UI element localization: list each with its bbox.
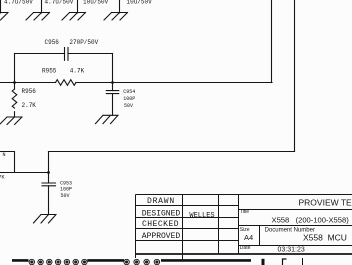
wire right branch vertical <box>112 54 114 91</box>
svg-text:DRAWN: DRAWN <box>147 197 175 206</box>
svg-text:03:31:23: 03:31:23 <box>278 247 305 254</box>
svg-text:270P/50V: 270P/50V <box>69 39 98 46</box>
svg-text:C954: C954 <box>123 89 135 95</box>
ground G4 <box>104 13 128 21</box>
connector pin circles group 1 <box>29 259 87 264</box>
svg-text:APPROVED: APPROVED <box>142 232 181 241</box>
bus bar segment 3 <box>161 259 251 262</box>
svg-text:R955: R955 <box>42 68 57 75</box>
svg-text:Date: Date <box>240 245 251 251</box>
title block row line approved <box>136 240 239 242</box>
title block row line drawn <box>136 205 239 207</box>
wire net A right riser <box>271 0 273 83</box>
ground G1 <box>0 13 8 21</box>
title block bottom border <box>136 253 352 255</box>
wire cap2 lead <box>41 0 43 13</box>
wire cap4 lead <box>119 0 121 13</box>
title block row line date <box>239 245 352 247</box>
svg-text:50V: 50V <box>61 193 70 199</box>
node junction A-right <box>111 81 114 84</box>
tick below table left <box>135 254 137 258</box>
title block divider v3 <box>238 195 240 255</box>
title block size divider <box>259 226 261 246</box>
resistor R955 <box>56 80 76 86</box>
wire B riser to net C <box>48 152 50 184</box>
svg-text:4.7u/50V: 4.7u/50V <box>45 0 74 6</box>
svg-text:PROVIEW TECHNOLOGY: PROVIEW TECHNOLOGY <box>299 197 352 207</box>
svg-text:N: N <box>3 152 6 158</box>
wire C954 bottom lead <box>112 94 114 116</box>
svg-text:10u/50V: 10u/50V <box>83 0 109 6</box>
ground G3 <box>62 13 86 21</box>
bus bar segment 1 <box>12 259 29 262</box>
svg-text:100P: 100P <box>123 96 135 102</box>
wire net A main horizontal <box>0 82 272 84</box>
title block row line designed <box>136 217 239 219</box>
svg-text:X558 (200-100-X558): X558 (200-100-X558) <box>272 216 350 225</box>
svg-text:10u/50V: 10u/50V <box>127 0 153 6</box>
svg-text:A4: A4 <box>244 233 253 242</box>
pin glyphs group 1 <box>30 260 86 263</box>
cut mark bracket <box>283 259 287 265</box>
wire R956 top lead <box>14 83 16 90</box>
svg-text:100P: 100P <box>60 187 72 193</box>
connector J box <box>0 152 15 173</box>
title block divider v1 <box>182 195 184 255</box>
wire net C right riser <box>294 0 296 152</box>
node junction B <box>47 171 50 174</box>
wire C956 loop right <box>68 53 113 55</box>
title block divider v2 <box>218 195 220 255</box>
cut mark thick tick <box>262 259 265 265</box>
title block row line size <box>239 225 352 227</box>
title block row line title <box>239 209 352 211</box>
ground G7 <box>34 215 57 224</box>
wire left branch up <box>14 54 16 83</box>
tick below table mid <box>182 254 184 260</box>
svg-text:C956: C956 <box>45 39 60 46</box>
svg-text:X558 MCU: X558 MCU <box>303 232 347 242</box>
wire net C horizontal <box>49 151 295 153</box>
svg-text:CHECKED: CHECKED <box>142 220 179 229</box>
svg-text:7K: 7K <box>0 174 5 180</box>
ground G5 <box>0 117 22 125</box>
ground G2 <box>26 13 50 21</box>
svg-text:2.7K: 2.7K <box>22 102 37 109</box>
capacitor C954 <box>106 91 118 94</box>
connector pin circles group 2 <box>124 259 160 264</box>
svg-text:50V: 50V <box>124 103 133 109</box>
svg-text:WELLES: WELLES <box>189 212 214 220</box>
cut mark thin tick <box>302 258 304 265</box>
svg-text:R956: R956 <box>22 88 37 95</box>
pin glyphs group 2 <box>125 260 158 263</box>
title block left border <box>135 195 137 255</box>
svg-text:Title: Title <box>240 209 249 215</box>
svg-text:DESIGNED: DESIGNED <box>142 210 181 219</box>
node junction A-left <box>13 81 16 84</box>
wire cap3 lead <box>77 0 79 13</box>
title block top border <box>136 194 352 196</box>
capacitor C953 <box>42 183 56 186</box>
svg-text:4.7K: 4.7K <box>70 68 85 75</box>
title block row line checked <box>136 228 239 230</box>
svg-text:4.7u/50V: 4.7u/50V <box>4 0 33 6</box>
wire R956 bottom lead <box>14 112 16 117</box>
wire C953 bottom lead <box>48 186 50 215</box>
wire C956 loop left <box>15 53 65 55</box>
wire net B horizontal <box>0 172 49 174</box>
bus bar segment 2 <box>87 259 124 262</box>
svg-text:C953: C953 <box>60 180 72 186</box>
capacitor C956 <box>65 48 69 61</box>
ground G6 <box>96 115 119 123</box>
resistor R956 <box>12 89 17 108</box>
wire cap1 lead <box>0 0 2 13</box>
